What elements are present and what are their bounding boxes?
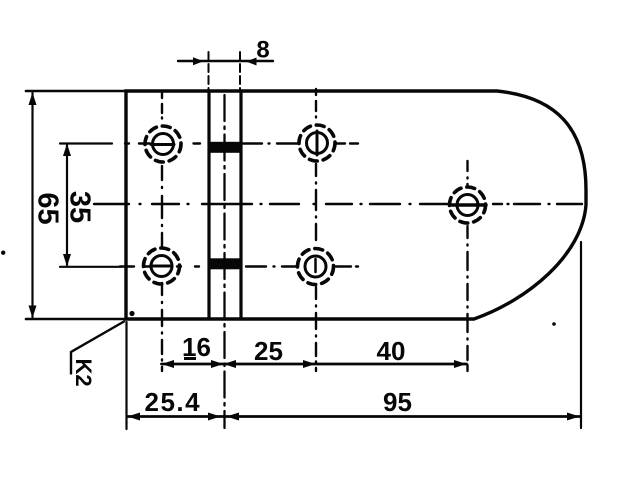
dim row2 arrow right end — [567, 413, 580, 421]
dim 35 arrow bottom — [63, 254, 71, 267]
dim 8 dot right — [246, 58, 257, 66]
dim row2 line — [128, 415, 580, 418]
dim row1 arrow right end — [454, 360, 467, 368]
artifact dot left — [1, 251, 5, 255]
centerline row1 — [125, 142, 358, 144]
ext line right edge — [580, 242, 582, 428]
hole H5 inner mark — [452, 203, 486, 207]
ext bottom edge left — [26, 318, 126, 321]
hole H2 dashed circle — [299, 125, 335, 161]
dim 65 line — [31, 93, 33, 317]
hinge weld block lower — [208, 258, 243, 269]
main centerline — [94, 203, 582, 205]
svg-text:25: 25 — [254, 336, 283, 366]
dim 8 dot left — [193, 57, 204, 65]
hole H5 circle — [457, 195, 478, 216]
dim row2 arrow mid left-pointing — [227, 413, 240, 421]
hole H4 dashed circle — [298, 249, 334, 285]
centerline col2 — [315, 89, 317, 371]
hinge knuckle line right — [239, 91, 242, 319]
hole H1 dashed circle — [145, 126, 181, 162]
dim 65 arrow bottom — [29, 306, 37, 319]
svg-text:35: 35 — [64, 191, 96, 223]
hole H4 circle — [305, 256, 326, 277]
dim 65 arrow top — [29, 93, 37, 106]
dim 8 line — [178, 60, 273, 62]
hinge centerline — [223, 95, 225, 428]
svg-text:65: 65 — [32, 192, 64, 224]
svg-text:40: 40 — [377, 336, 406, 366]
dim 8 extension left — [208, 52, 210, 90]
dim row1 arrows at 223.5 — [211, 360, 224, 368]
hinge knuckle line left — [207, 91, 210, 319]
centerline col1 — [161, 92, 163, 371]
svg-text:25.4: 25.4 — [144, 387, 201, 417]
hole H2 inner mark — [316, 131, 319, 155]
dim row1 line — [162, 363, 467, 366]
hole H1 inner mark — [151, 143, 174, 146]
hole H5 dashed circle — [450, 187, 486, 223]
hole H4 inner mark — [314, 259, 317, 272]
dim row2 arrow left end — [128, 413, 141, 421]
dim row2 arrow mid right-pointing — [208, 413, 221, 421]
ext 35 bottom — [60, 266, 121, 268]
artifact dot right — [552, 322, 556, 326]
hole H3 inner mark — [150, 265, 172, 268]
dim 35 line — [66, 145, 68, 265]
label 16 underline serif — [184, 357, 196, 360]
hole H3 dashed circle — [144, 248, 180, 284]
hole H1 circle — [153, 134, 174, 155]
dim row1 arrow left end — [162, 360, 175, 368]
plate outline — [126, 91, 586, 319]
svg-text:8: 8 — [256, 37, 269, 64]
ext 35 top — [60, 142, 112, 144]
dim row1 arrows at 315.5 — [303, 360, 316, 368]
dim 8 extension right — [239, 52, 241, 90]
svg-text:K2: K2 — [71, 358, 96, 386]
artifact dot corner — [129, 311, 134, 316]
ext line left edge below — [125, 322, 127, 429]
hole H3 circle — [151, 256, 172, 277]
ext top edge left — [26, 90, 126, 93]
centerline col3 — [466, 161, 468, 371]
hole H2 circle — [307, 133, 328, 154]
centerline row2 — [120, 265, 358, 267]
dim 35 arrow top — [63, 144, 71, 157]
leader K2 — [71, 322, 124, 374]
svg-text:95: 95 — [383, 387, 412, 417]
hinge weld block upper — [208, 142, 243, 153]
